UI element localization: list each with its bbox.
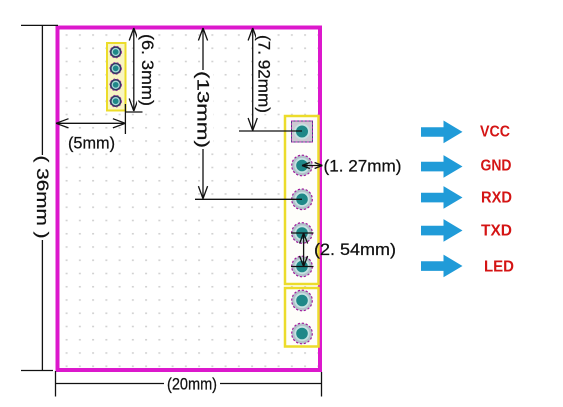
- PCB board outline (magenta): [58, 28, 321, 371]
- dimension 1.27mm: horizontal double arrow at pad GND: [302, 163, 322, 169]
- dimension 6.3mm: vertical double arrow: [125, 28, 143, 112]
- J1 pad 6: [292, 290, 313, 311]
- J2 pad 3: [110, 79, 122, 91]
- svg-text:RXD: RXD: [481, 190, 512, 207]
- dimension 20mm: horizontal line under board: [56, 371, 322, 397]
- svg-text:(2. 54mm): (2. 54mm): [314, 240, 396, 259]
- J1 pad 1 (square, VCC): [292, 121, 313, 142]
- J1 pad 3 (RXD): [292, 189, 313, 210]
- grid dots: [60, 30, 318, 368]
- dimension 7.92mm: vertical double arrow to pad VCC: [239, 28, 302, 131]
- blue arrow LED: [421, 255, 463, 278]
- svg-text:(1. 27mm): (1. 27mm): [324, 156, 402, 175]
- J1 pad 2 (GND): [292, 155, 313, 176]
- J2 pad 2: [110, 63, 122, 75]
- dimension 36mm: vertical line left of board: [21, 25, 58, 370]
- svg-text:( 36mm ): ( 36mm ): [33, 156, 52, 239]
- dimension 13mm: vertical double arrow to pad RXD: [195, 28, 302, 199]
- blue arrow GND: [421, 155, 463, 178]
- J2 pad 1: [110, 46, 122, 58]
- header J1 upper yellow box (pads 1-5): [285, 116, 319, 284]
- dimension 2.54mm: vertical double arrow between TXD and LED pads: [291, 233, 314, 267]
- svg-text:(5mm): (5mm): [68, 133, 115, 152]
- dimension 7.92mm label: [255, 34, 277, 114]
- dimension 5mm: horizontal double arrow at top-left: [56, 104, 125, 134]
- blue arrow TXD: [421, 219, 463, 242]
- svg-text:(13mm): (13mm): [194, 71, 213, 148]
- svg-text:VCC: VCC: [480, 124, 510, 141]
- svg-text:(6. 3mm): (6. 3mm): [138, 34, 157, 106]
- J1 pad 5 (LED): [292, 256, 313, 277]
- J2 pad 4: [110, 95, 122, 107]
- dimension 6.3mm label: [137, 33, 157, 107]
- svg-text:(20mm): (20mm): [167, 375, 217, 394]
- blue arrow RXD: [421, 186, 463, 209]
- J1 pad 7: [292, 323, 313, 344]
- svg-text:(7. 92mm): (7. 92mm): [255, 35, 274, 113]
- blue arrow VCC: [421, 121, 463, 144]
- J1 pad 4 (TXD): [292, 223, 313, 244]
- header J1 lower yellow box (pads 6-7): [285, 288, 319, 347]
- svg-text:TXD: TXD: [481, 223, 512, 240]
- svg-text:GND: GND: [481, 158, 512, 175]
- dimension 5mm label: [66, 133, 118, 152]
- header strip J2 (4-pad, top-left): [107, 43, 126, 111]
- dimension 13mm label: [193, 71, 213, 148]
- svg-text:LED: LED: [484, 259, 514, 276]
